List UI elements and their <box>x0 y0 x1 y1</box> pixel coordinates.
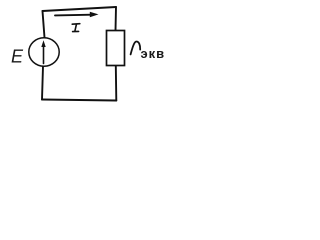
wire top <box>43 7 117 11</box>
wire right upper <box>115 7 118 31</box>
svg-text:экв: экв <box>141 46 166 61</box>
wire right lower <box>115 66 118 101</box>
source arrow shaft <box>43 45 45 64</box>
source arrow head <box>41 40 45 47</box>
label I <box>72 24 80 32</box>
wire left lower <box>42 66 43 99</box>
label r <box>131 42 141 55</box>
wire left upper <box>43 11 45 38</box>
source E circle <box>29 38 59 66</box>
svg-text:E: E <box>11 46 24 66</box>
wire bottom <box>42 100 116 101</box>
resistor r_ekv <box>107 31 125 66</box>
current arrow shaft <box>55 14 92 17</box>
current arrow head <box>90 12 99 17</box>
